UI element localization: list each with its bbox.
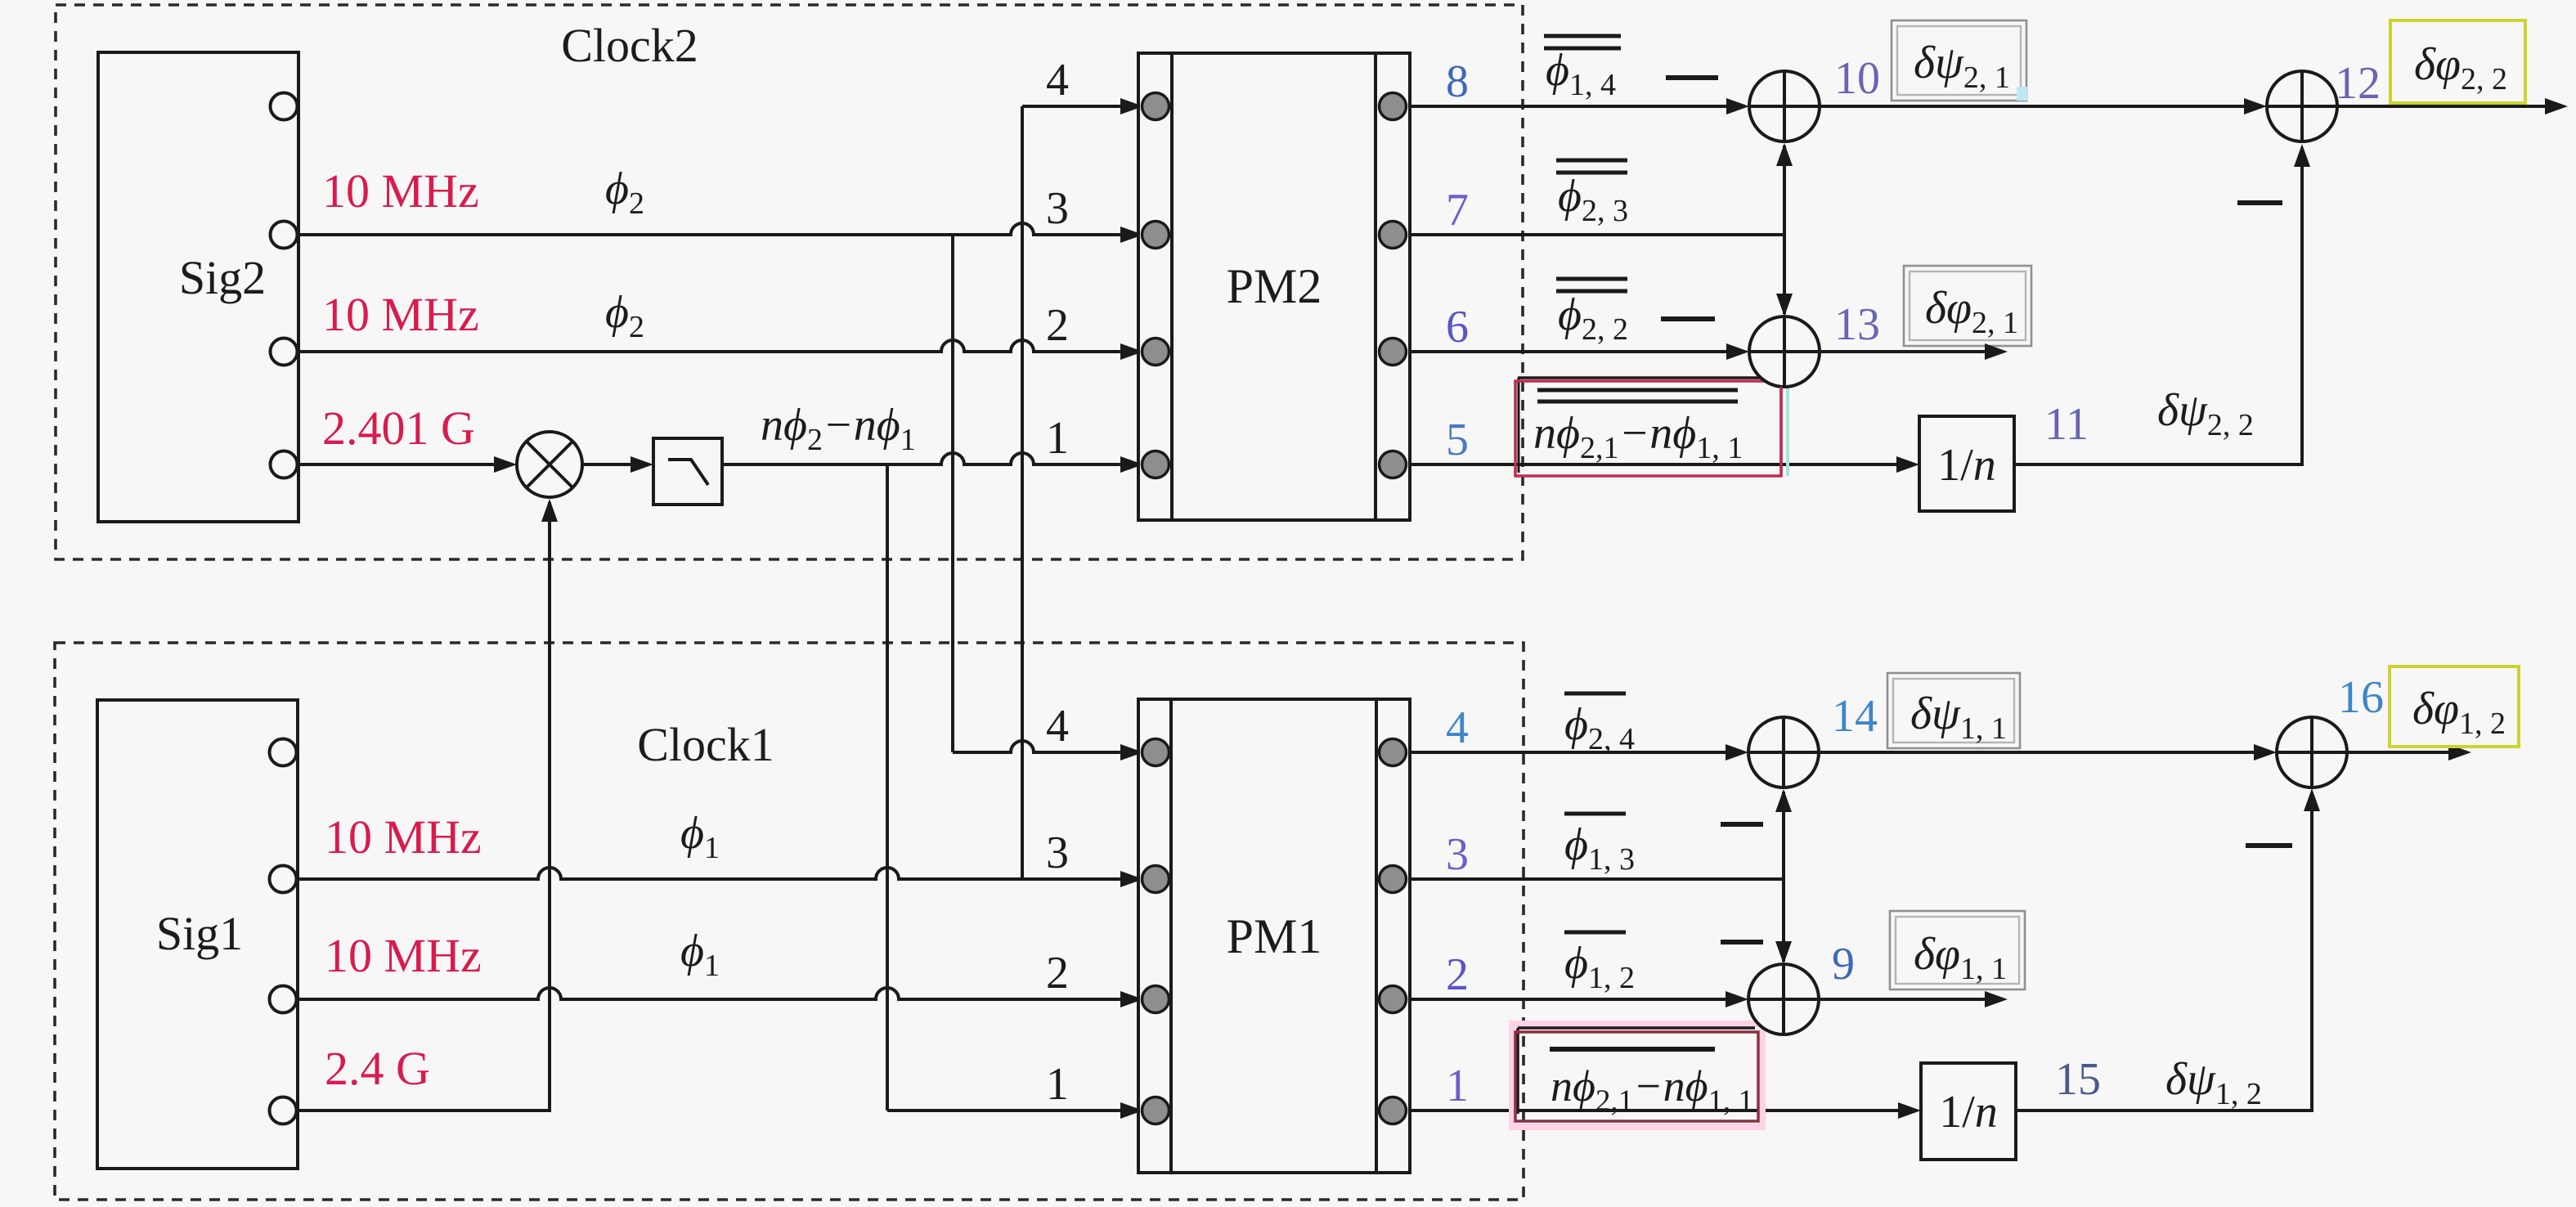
summing junction 16 [2277,717,2347,787]
block Sig1 [97,700,298,1169]
box delta-phi(1,2) yellow [2390,666,2519,747]
pin PM1 out1..out4 [1380,739,1407,1124]
divider 1/n upper [1919,416,2014,511]
block Sig2 [98,52,298,522]
label phi(1,2) overline [1564,932,1635,995]
svg-text:PM1: PM1 [1227,909,1322,963]
svg-text:2.4 G: 2.4 G [325,1042,430,1095]
divider 1/n lower [1921,1063,2016,1160]
summing junction 14 [1748,717,1819,787]
port Sig1.1 [270,739,297,766]
wire phi2 row3 to PM2 port2 [298,340,1143,360]
svg-text:10 MHz: 10 MHz [325,810,482,864]
svg-text:13: 13 [1834,299,1880,350]
label phi(1,3) overline [1564,814,1635,877]
block PM1 [1138,699,1410,1173]
wire vertical x1165 phi2 down-feed [951,235,954,752]
minus sign at sum12 input [2237,200,2282,205]
wire vertical x1085 nphi down-feed [886,464,889,1111]
svg-text:Sig2: Sig2 [179,251,266,304]
svg-text:2: 2 [1046,300,1069,351]
svg-text:2: 2 [1046,948,1069,998]
wire PM2 out7 to node [1410,233,1784,236]
svg-text:Sig1: Sig1 [156,907,243,960]
minus sign at sum16 input [2246,843,2292,848]
wire phi1 row2 to PM1 port3 [298,868,1143,887]
wire divider to sum12 [2014,144,2310,464]
wire sum12 output [2337,98,2568,114]
minus sign for phi(1,2) [1721,940,1763,945]
port Sig2.3 [271,339,298,366]
svg-text:3: 3 [1046,183,1069,234]
svg-text:5: 5 [1446,415,1469,465]
minus sign for phi(1,3) [1721,822,1763,827]
pin PM2 out5..out8 [1380,93,1407,478]
svg-text:3: 3 [1046,828,1069,878]
svg-text:Clock1: Clock1 [637,718,774,771]
svg-text:14: 14 [1832,691,1878,742]
svg-text:6: 6 [1446,302,1469,352]
port Sig1.3 [270,986,297,1013]
wire sum10 to sum12 [1820,98,2267,114]
pin PM2 in1..in4 [1142,93,1169,478]
box delta-psi(2,1) [1892,20,2027,101]
wire sum16 output [2347,744,2471,761]
wire into PM2 port4 [1022,98,1143,114]
wire divider to sum16 [2016,788,2320,1111]
label n*phi(2,1)-n*phi(1,1) double overline [1533,390,1743,465]
label phi(2,4) overline [1564,693,1635,756]
block PM2 [1138,53,1410,520]
summing junction 10 [1749,71,1820,141]
wire phi2 row2 to PM2 port3 [298,223,1143,243]
box delta-phi(1,1) [1890,911,2025,989]
port Sig2.1 [271,93,298,120]
svg-text:9: 9 [1832,939,1855,989]
label phi(1,4) double overline [1544,36,1621,102]
wire PM1 out3 to node [1410,877,1784,881]
red highlight box lower [1512,1024,1762,1127]
box delta-phi(2,2) yellow [2390,20,2525,103]
wire red link out5 to sum13 [1779,387,1783,476]
svg-text:4: 4 [1446,702,1469,753]
svg-text:4: 4 [1046,701,1069,752]
wire PM1 out1 to divider [1410,1102,1921,1119]
wire PM2 out5 to divider [1410,456,1919,473]
wire vertical x1250 phi1 up-feed [1021,106,1024,879]
svg-text:nϕ2−nϕ1: nϕ2−nϕ1 [761,400,916,457]
svg-text:3: 3 [1446,829,1469,880]
wire node3 vertical to sum14 and sum9 [1775,789,1792,964]
wire sum14 to sum16 [1819,744,2277,761]
svg-text:1: 1 [1046,413,1069,464]
svg-text:12: 12 [2335,58,2381,109]
label n*phi(2,1)-n*phi(1,1) overline [1550,1049,1753,1118]
minus sign for phi(1,4) [1666,75,1718,80]
summing junction 12 [2267,71,2337,141]
wire node7 vertical to sum10 and sum13 [1776,143,1793,316]
wire LPF to PM2 port1 [722,453,1143,473]
svg-text:11: 11 [2044,399,2089,450]
svg-text:1/n: 1/n [1937,440,1996,491]
svg-text:16: 16 [2338,672,2384,723]
wire 2.4G to mixer vertical [298,499,558,1111]
svg-text:10 MHz: 10 MHz [322,164,479,218]
svg-text:PM2: PM2 [1227,259,1322,313]
wire PM2 out6 to sum13 [1410,343,1749,360]
wire into PM1 port1 [887,1102,1143,1119]
wire sum9 output [1819,991,2008,1007]
wire mixer to LPF [582,456,653,473]
svg-text:8: 8 [1446,56,1469,107]
low-pass filter F1 [653,438,722,505]
svg-text:7: 7 [1446,185,1469,236]
label phi(2,2) double overline [1556,279,1628,347]
wire PM2 out8 to sum10 [1410,98,1749,114]
wire Sig2.4 to mixer [298,456,517,473]
port Sig1.4 [270,1097,297,1124]
svg-text:2: 2 [1446,949,1469,1000]
label phi(2,3) double overline [1556,160,1628,228]
dashed box Clock2 [56,5,1523,559]
wire phi1 row3 to PM1 port2 [298,988,1143,1007]
svg-text:10: 10 [1834,53,1880,104]
svg-text:2.401 G: 2.401 G [322,402,475,455]
wire PM1 out2 to sum9 [1410,991,1748,1007]
port Sig2.2 [271,222,298,249]
svg-text:1/n: 1/n [1939,1087,1998,1137]
wire into PM1 port4 [953,741,1143,761]
svg-text:10 MHz: 10 MHz [325,929,482,982]
wire PM1 out4 to sum14 [1410,744,1748,761]
svg-text:1: 1 [1446,1061,1469,1111]
port Sig2.4 [271,451,298,478]
svg-text:Clock2: Clock2 [561,19,698,72]
summing junction 13 [1749,316,1820,387]
dashed box Clock1 [55,643,1524,1200]
svg-text:10 MHz: 10 MHz [322,288,479,341]
box delta-phi(2,1) [1904,266,2031,346]
pin PM1 in1..in4 [1142,739,1169,1124]
summing junction 9 [1748,964,1819,1034]
svg-text:1: 1 [1046,1059,1069,1110]
svg-text:15: 15 [2055,1054,2101,1105]
mixer M1 [517,432,582,497]
red highlight box upper [1515,378,1788,476]
minus sign for phi(2,2) [1661,316,1715,321]
svg-text:4: 4 [1046,55,1069,105]
box delta-psi(1,1) [1887,673,2020,748]
wire sum13 output [1820,343,2008,360]
port Sig1.2 [270,866,297,893]
